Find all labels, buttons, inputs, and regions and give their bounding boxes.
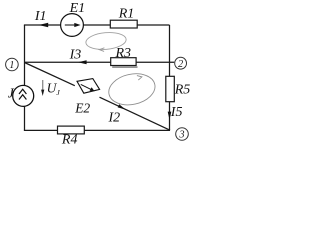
current arrow I5 (168, 112, 172, 120)
svg-text:3: 3 (179, 130, 185, 141)
wire diagonal E2 to node3 (100, 97, 171, 130)
node 3 (176, 128, 189, 141)
resistor R3 (111, 58, 136, 66)
wire middle horizontal (25, 61, 175, 63)
loop 2 arrowhead (137, 76, 142, 81)
resistor R5 (166, 76, 175, 101)
svg-text:E1: E1 (69, 1, 86, 16)
svg-text:J: J (8, 85, 15, 100)
current arrow I2 (118, 104, 126, 109)
svg-text:R1: R1 (118, 7, 135, 22)
resistor R1 (110, 20, 137, 28)
current source J (13, 85, 34, 106)
node 1 (6, 58, 19, 71)
current arrow I3 (78, 60, 87, 64)
loop 1 arrowhead (99, 48, 104, 52)
svg-text:R3: R3 (115, 46, 132, 61)
EMF source E2 (77, 79, 100, 94)
svg-text:R4: R4 (61, 133, 78, 148)
wire diagonal node1 to E2 (25, 63, 75, 86)
node 2 (175, 57, 187, 69)
svg-text:I1: I1 (34, 9, 47, 24)
svg-text:1: 1 (9, 60, 14, 71)
svg-text:R5: R5 (174, 82, 191, 97)
voltage arrow U_J (42, 80, 44, 90)
wire top horizontal (24, 24, 170, 26)
wire right vertical (169, 25, 171, 130)
wire bottom horizontal (24, 129, 170, 131)
svg-text:I5: I5 (170, 105, 183, 120)
loop 1 direction ellipse (85, 31, 127, 51)
current arrow I1 (39, 23, 49, 27)
resistor R3 shadow (112, 66, 137, 68)
svg-text:E2: E2 (74, 101, 90, 116)
svg-text:I2: I2 (108, 110, 121, 125)
loop 2 direction ellipse (106, 70, 158, 109)
svg-text:2: 2 (178, 59, 183, 70)
wire left vertical (24, 25, 26, 131)
resistor R4 (58, 126, 85, 134)
EMF source E1 (61, 14, 84, 37)
svg-text:I3: I3 (69, 48, 82, 63)
